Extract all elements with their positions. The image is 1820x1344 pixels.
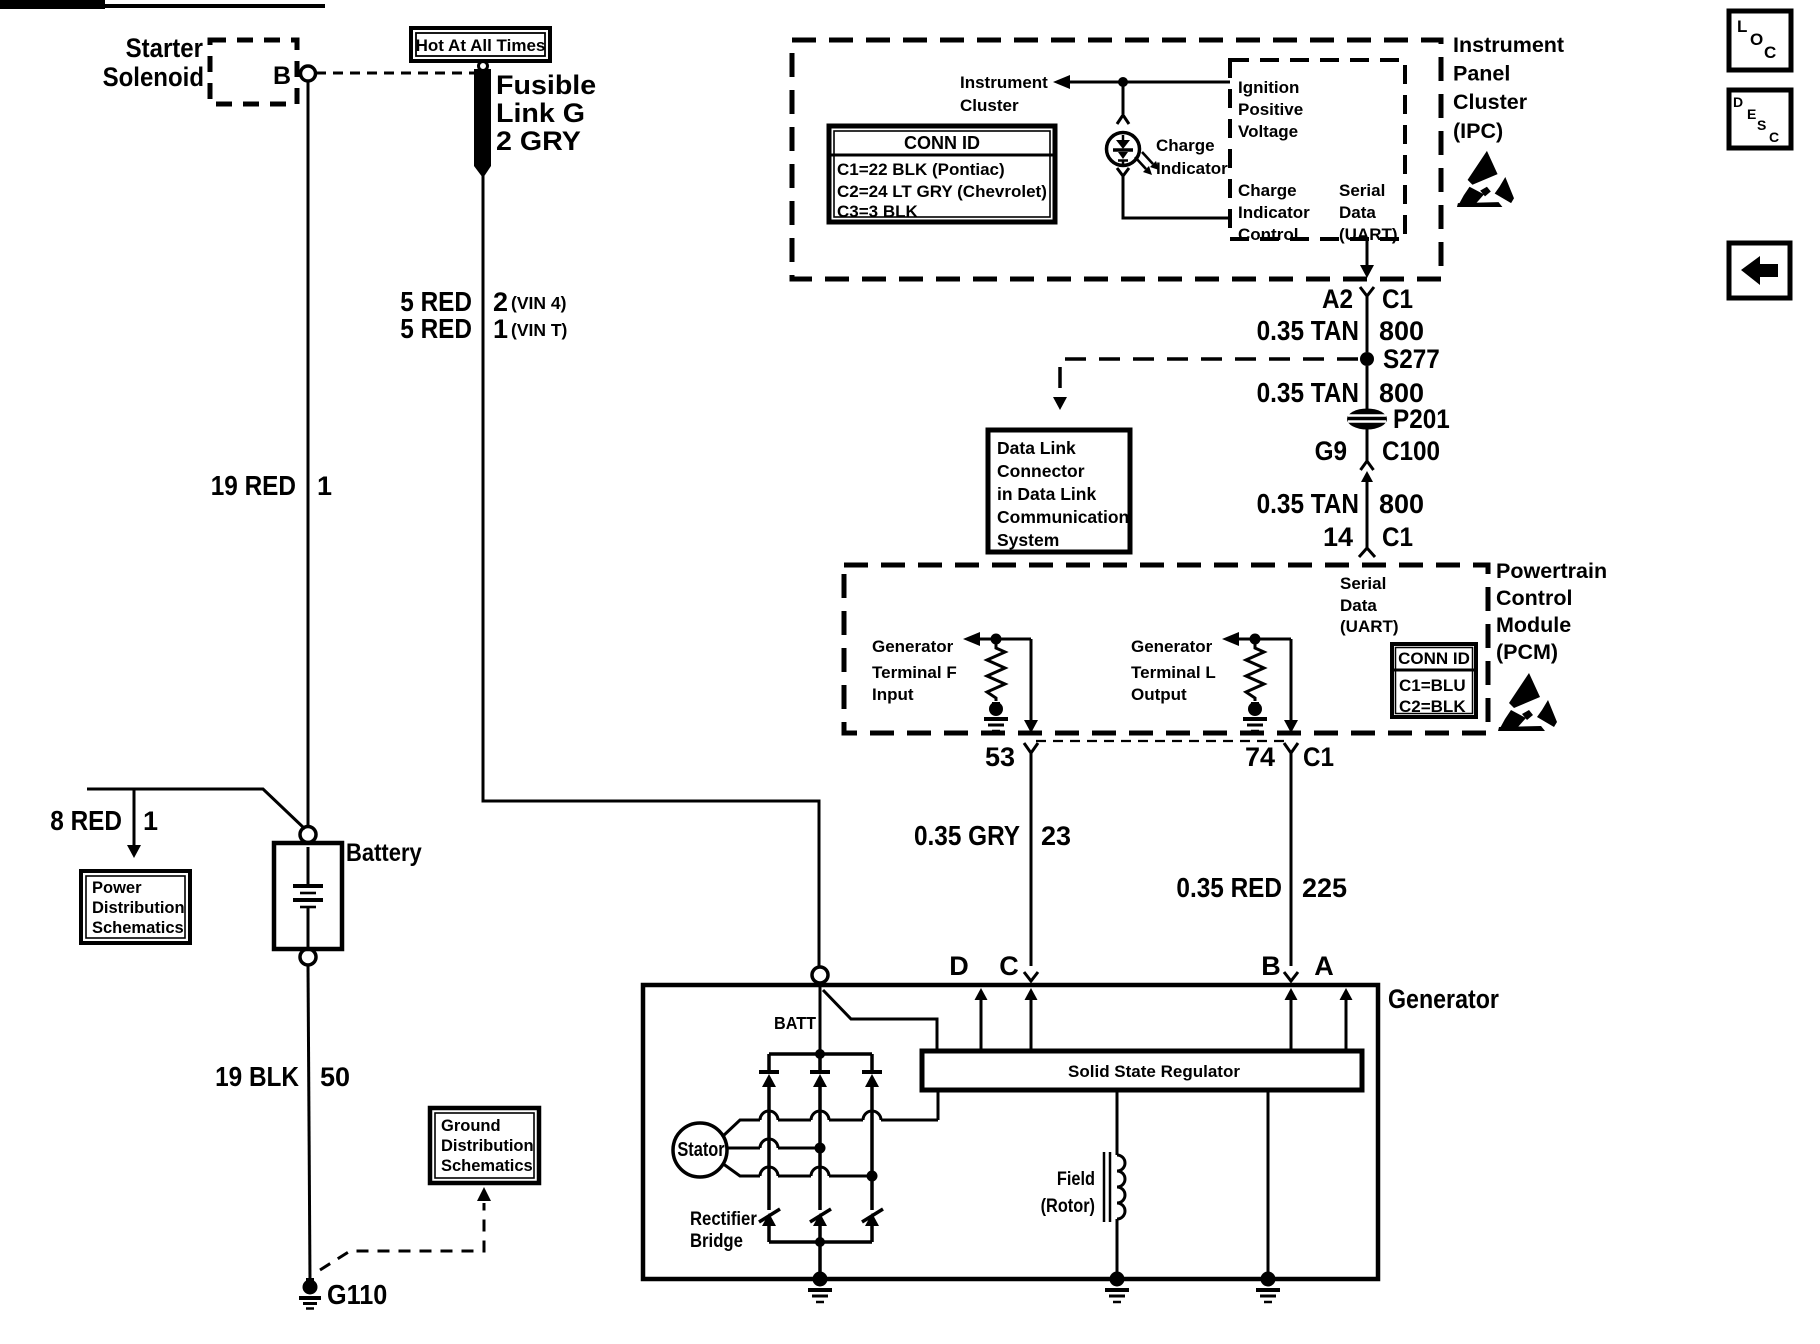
- ground L: [1243, 702, 1267, 731]
- field rotor coil: [1104, 1152, 1125, 1222]
- resistor F pull-down: [987, 644, 1005, 701]
- rectifier bridge bottom bus: [769, 1240, 872, 1244]
- BATT label: [774, 1013, 816, 1033]
- svg-text:(UART): (UART): [1340, 617, 1399, 636]
- svg-text:Powertrain: Powertrain: [1496, 559, 1607, 583]
- wire label 0.35 TAN 800 upper: [1257, 314, 1424, 346]
- svg-text:Terminal F: Terminal F: [872, 663, 957, 682]
- svg-text:Cluster: Cluster: [1453, 90, 1528, 114]
- diode top column 1: [759, 1072, 779, 1087]
- battery label: [346, 839, 422, 867]
- terminal B label: [273, 62, 291, 90]
- ground field: [1105, 1272, 1129, 1303]
- svg-text:50: 50: [320, 1062, 350, 1092]
- svg-text:Output: Output: [1131, 685, 1187, 704]
- wire junction to charge indicator: [1122, 82, 1125, 114]
- svg-text:1: 1: [143, 806, 158, 836]
- arrow generator terminal F: [963, 632, 1031, 646]
- svg-text:(IPC): (IPC): [1453, 119, 1503, 143]
- svg-text:Positive: Positive: [1238, 100, 1303, 119]
- stator lead bottom: [722, 1163, 878, 1182]
- svg-text:Input: Input: [872, 685, 914, 704]
- splice S277: [1360, 345, 1440, 374]
- wire regulator to field: [1116, 1090, 1119, 1155]
- instrument cluster label: [960, 73, 1048, 115]
- svg-text:2: 2: [493, 287, 508, 317]
- fusible link label: [496, 70, 596, 156]
- svg-text:Power: Power: [92, 879, 142, 897]
- connector into charge indicator: [1117, 115, 1129, 124]
- svg-text:G110: G110: [327, 1279, 387, 1311]
- svg-text:Cluster: Cluster: [960, 96, 1019, 115]
- stator: [673, 1123, 727, 1177]
- wire bridge to ground: [818, 1242, 822, 1279]
- wire 74 to generator B: [1290, 753, 1293, 966]
- diode top column 3: [862, 1072, 882, 1087]
- wire label 5 RED 1 (VIN T): [400, 312, 567, 344]
- power distribution schematics box: [81, 871, 190, 943]
- rectifier bridge label: [690, 1208, 757, 1251]
- charge indicator emission arrows: [1135, 152, 1159, 175]
- arrow D into generator: [975, 988, 988, 1051]
- svg-text:C1=22 BLK (Pontiac): C1=22 BLK (Pontiac): [837, 160, 1005, 179]
- arrow B into generator: [1285, 988, 1298, 1051]
- generator terminal F label: [872, 637, 957, 704]
- inner box labels charge indicator control: [1238, 181, 1310, 244]
- stator lead middle: [727, 1139, 826, 1154]
- generator label: [1388, 984, 1499, 1014]
- svg-text:Fusible: Fusible: [496, 70, 596, 100]
- svg-text:Communication: Communication: [997, 507, 1129, 527]
- wire label 0.35 TAN 800 middle: [1257, 376, 1424, 408]
- svg-text:Bridge: Bridge: [690, 1230, 743, 1251]
- svg-text:Ignition: Ignition: [1238, 78, 1299, 97]
- wire A2 to S277: [1366, 296, 1369, 352]
- svg-text:Control: Control: [1496, 586, 1572, 610]
- svg-text:C: C: [999, 951, 1019, 981]
- back arrow button: [1729, 243, 1790, 298]
- wire BATT down through bridge: [819, 983, 822, 1054]
- connector below charge indicator: [1117, 168, 1129, 176]
- battery positive terminal: [300, 827, 316, 843]
- arrow C into generator: [1025, 988, 1038, 1051]
- svg-text:Generator: Generator: [872, 637, 954, 656]
- resistor L pull-down: [1246, 644, 1264, 701]
- svg-text:Generator: Generator: [1131, 637, 1213, 656]
- wire regulator right to ground: [1267, 1090, 1270, 1279]
- junction instrument cluster feed: [1118, 77, 1128, 87]
- PCM ESD symbol: [1498, 673, 1557, 731]
- svg-text:0.35 TAN: 0.35 TAN: [1257, 487, 1359, 519]
- svg-text:Data: Data: [1340, 596, 1377, 615]
- label G110: [327, 1279, 387, 1311]
- terminal BATT: [812, 967, 828, 983]
- ground rectifier: [808, 1272, 832, 1303]
- IPC ESD symbol: [1457, 151, 1514, 207]
- svg-text:(Rotor): (Rotor): [1041, 1195, 1095, 1216]
- svg-text:B: B: [273, 62, 291, 90]
- connector 14 C1 into PCM: [1359, 548, 1375, 557]
- svg-text:74: 74: [1245, 742, 1275, 772]
- wire C100 to PCM: [1366, 481, 1369, 548]
- inner box labels ignition positive voltage: [1238, 78, 1303, 141]
- svg-text:Link G: Link G: [496, 98, 585, 128]
- wire label 8 RED 1: [50, 804, 158, 836]
- bridge column 1: [767, 1054, 771, 1242]
- svg-text:Module: Module: [1496, 613, 1571, 637]
- svg-text:225: 225: [1302, 873, 1347, 903]
- arrow to instrument cluster: [1053, 75, 1230, 89]
- arrow A into generator: [1340, 988, 1353, 1051]
- svg-text:A: A: [1314, 951, 1334, 981]
- charge indicator label: [1156, 136, 1228, 178]
- svg-text:0.35 RED: 0.35 RED: [1176, 871, 1282, 903]
- svg-text:(VIN 4): (VIN 4): [511, 293, 566, 313]
- wire branch to power distribution: [87, 789, 305, 829]
- PCM label: [1496, 559, 1607, 664]
- PCM serial data label: [1340, 574, 1399, 636]
- svg-text:800: 800: [1379, 316, 1424, 346]
- battery: [274, 843, 342, 949]
- ignition voltage dashed box: [1230, 60, 1405, 239]
- svg-text:BATT: BATT: [774, 1013, 816, 1033]
- junction bridge bottom: [815, 1237, 825, 1247]
- scan artifact bar top-left: [0, 0, 325, 9]
- Hot At All Times box: [411, 28, 550, 61]
- svg-text:14: 14: [1323, 522, 1353, 552]
- svg-text:in Data Link: in Data Link: [997, 484, 1096, 504]
- starter solenoid dashed box: [210, 40, 297, 104]
- wire field to ground: [1116, 1219, 1119, 1279]
- svg-text:53: 53: [985, 742, 1015, 772]
- svg-text:Generator: Generator: [1388, 984, 1499, 1014]
- svg-text:2 GRY: 2 GRY: [496, 126, 581, 156]
- label 14 C1: [1323, 522, 1413, 552]
- arrow into ground distribution box: [477, 1187, 491, 1201]
- svg-text:A2: A2: [1322, 285, 1353, 314]
- svg-text:Schematics: Schematics: [441, 1157, 533, 1175]
- svg-text:Distribution: Distribution: [92, 899, 185, 917]
- IPC CONN ID table: [829, 126, 1055, 222]
- instrument panel cluster dashed box: [792, 40, 1441, 279]
- wire 53 to generator C: [1030, 753, 1033, 966]
- wire solenoid B to battery: [307, 81, 310, 827]
- wire fusible link to generator BATT: [483, 176, 819, 967]
- svg-text:C1: C1: [1382, 523, 1413, 552]
- svg-text:1: 1: [493, 314, 508, 344]
- dashed wire G110 to ground distribution: [320, 1203, 484, 1270]
- svg-text:D: D: [1733, 94, 1743, 110]
- svg-text:Distribution: Distribution: [441, 1137, 534, 1155]
- svg-text:C1: C1: [1303, 743, 1334, 772]
- svg-text:Solid State Regulator: Solid State Regulator: [1068, 1062, 1240, 1081]
- field rotor label: [1041, 1168, 1095, 1216]
- svg-text:(PCM): (PCM): [1496, 640, 1558, 664]
- wire label 0.35 GRY 23: [914, 819, 1071, 851]
- ground regulator: [1256, 1272, 1280, 1303]
- battery negative terminal: [300, 949, 316, 965]
- svg-text:C1: C1: [1382, 285, 1413, 314]
- diode top column 2: [810, 1072, 830, 1087]
- svg-text:Indicator: Indicator: [1238, 203, 1310, 222]
- ground distribution schematics box: [430, 1108, 539, 1183]
- svg-text:Data Link: Data Link: [997, 438, 1076, 458]
- svg-text:E: E: [1747, 106, 1756, 122]
- svg-text:Battery: Battery: [346, 839, 422, 867]
- svg-text:Instrument: Instrument: [960, 73, 1048, 92]
- svg-text:Serial: Serial: [1340, 574, 1386, 593]
- label D: [949, 951, 969, 981]
- bridge column 2: [818, 1054, 822, 1242]
- svg-text:D: D: [949, 951, 969, 981]
- svg-text:0.35 TAN: 0.35 TAN: [1257, 314, 1359, 346]
- LOC button: [1729, 11, 1791, 70]
- svg-text:19 BLK: 19 BLK: [215, 1060, 299, 1092]
- svg-text:Solenoid: Solenoid: [103, 63, 204, 93]
- pin 53 connector: [985, 742, 1038, 772]
- wire label 19 RED 1: [211, 469, 332, 501]
- svg-text:Hot At All Times: Hot At All Times: [416, 36, 546, 55]
- dashed wire S277 to data link connector: [1053, 359, 1358, 410]
- label C: [999, 951, 1019, 981]
- data link connector box: [988, 430, 1130, 552]
- IPC label: [1453, 33, 1564, 143]
- connector line C1 below PCM: [1036, 740, 1286, 742]
- label A: [1314, 951, 1334, 981]
- ground F: [984, 702, 1008, 731]
- wire charge indicator to control: [1123, 176, 1230, 218]
- svg-text:S: S: [1757, 117, 1766, 133]
- svg-text:8 RED: 8 RED: [50, 804, 122, 836]
- svg-text:0.35 TAN: 0.35 TAN: [1257, 376, 1359, 408]
- rectifier bridge top bus: [769, 1052, 872, 1056]
- diode bottom column 3 with slash: [862, 1209, 883, 1226]
- wire label 0.35 TAN 800 lower: [1257, 487, 1424, 519]
- svg-text:C2=24 LT GRY (Chevrolet): C2=24 LT GRY (Chevrolet): [837, 182, 1047, 201]
- wire BATT feedthrough to stator: [937, 1090, 940, 1120]
- diode bottom column 2 with slash: [810, 1209, 831, 1226]
- svg-text:Ground: Ground: [441, 1117, 501, 1135]
- charge indicator lamp: [1107, 133, 1140, 166]
- svg-text:23: 23: [1041, 821, 1071, 851]
- svg-text:System: System: [997, 530, 1059, 550]
- svg-text:C1=BLU: C1=BLU: [1399, 676, 1466, 695]
- svg-text:Voltage: Voltage: [1238, 122, 1298, 141]
- svg-text:L: L: [1737, 17, 1747, 36]
- solid state regulator: [922, 1051, 1362, 1090]
- junction L: [1250, 634, 1261, 645]
- ground G110: [299, 1278, 321, 1309]
- svg-text:CONN ID: CONN ID: [1398, 649, 1470, 668]
- svg-text:Data: Data: [1339, 203, 1376, 222]
- wire L to pin 74: [1284, 639, 1298, 733]
- svg-text:C100: C100: [1382, 437, 1440, 466]
- svg-text:Stator: Stator: [677, 1137, 724, 1160]
- svg-text:800: 800: [1379, 378, 1424, 408]
- wire label 5 RED 2 (VIN 4): [400, 285, 566, 317]
- svg-text:B: B: [1261, 951, 1281, 981]
- connector B at generator: [1284, 972, 1298, 981]
- PCM CONN ID table: [1392, 644, 1476, 717]
- svg-text:19 RED: 19 RED: [211, 469, 296, 501]
- svg-text:C: C: [1769, 129, 1779, 145]
- junction F: [991, 634, 1002, 645]
- svg-text:Instrument: Instrument: [1453, 33, 1564, 57]
- svg-text:Control: Control: [1238, 225, 1298, 244]
- svg-text:Terminal L: Terminal L: [1131, 663, 1216, 682]
- terminal B: [301, 66, 316, 81]
- svg-text:C3=3 BLK: C3=3 BLK: [837, 202, 918, 221]
- svg-text:0.35 GRY: 0.35 GRY: [914, 819, 1020, 851]
- label B: [1261, 951, 1281, 981]
- svg-text:Starter: Starter: [126, 34, 203, 64]
- connector A2 C1: [1322, 285, 1413, 314]
- wire S277 to P201: [1366, 366, 1369, 410]
- bridge column 3: [870, 1054, 874, 1242]
- junction bridge top: [815, 1049, 825, 1059]
- DESC button: [1729, 90, 1791, 148]
- svg-text:C: C: [1764, 43, 1776, 62]
- fusible link G: [474, 62, 491, 179]
- arrow generator terminal L: [1222, 632, 1291, 646]
- wire battery to G110: [308, 965, 310, 1281]
- connector C at generator: [1024, 972, 1038, 981]
- svg-text:O: O: [1750, 30, 1763, 49]
- svg-text:1: 1: [317, 471, 332, 501]
- svg-text:Panel: Panel: [1453, 62, 1510, 86]
- inner box labels serial data uart: [1339, 181, 1398, 244]
- powertrain control module dashed box: [844, 565, 1488, 733]
- generator terminal L label: [1131, 637, 1216, 704]
- connector G9 C100: [1315, 437, 1440, 482]
- svg-text:Serial: Serial: [1339, 181, 1385, 200]
- pin 74 connector: [1245, 742, 1334, 772]
- svg-text:Charge: Charge: [1238, 181, 1297, 200]
- svg-text:Charge: Charge: [1156, 136, 1215, 155]
- svg-text:Field: Field: [1057, 1168, 1095, 1189]
- svg-text:G9: G9: [1315, 437, 1347, 466]
- svg-text:Indicator: Indicator: [1156, 159, 1228, 178]
- wire label 0.35 RED 225: [1176, 871, 1347, 903]
- grommet P201: [1347, 405, 1450, 434]
- svg-text:Connector: Connector: [997, 461, 1085, 481]
- wire F to pin 53: [1024, 639, 1038, 733]
- svg-text:P201: P201: [1393, 405, 1450, 434]
- wire P201 to C100: [1366, 429, 1369, 461]
- svg-text:Schematics: Schematics: [92, 919, 184, 937]
- stator lead top: [722, 1111, 938, 1137]
- svg-text:800: 800: [1379, 489, 1424, 519]
- svg-text:5 RED: 5 RED: [400, 312, 472, 344]
- diode bottom column 1 with slash: [759, 1209, 780, 1226]
- svg-text:S277: S277: [1383, 345, 1440, 374]
- dashed wire B to fusible link: [316, 72, 474, 75]
- svg-text:CONN ID: CONN ID: [904, 133, 980, 153]
- svg-text:(VIN T): (VIN T): [511, 320, 567, 340]
- starter solenoid label: [103, 34, 204, 93]
- generator box: [643, 985, 1378, 1279]
- svg-text:Rectifier: Rectifier: [690, 1208, 757, 1229]
- arrow to power distribution schematics: [127, 789, 141, 858]
- wire label 19 BLK 50: [215, 1060, 350, 1092]
- wire BATT lead: [823, 990, 937, 1051]
- serial data exit arrow: [1360, 241, 1374, 278]
- svg-text:C2=BLK: C2=BLK: [1399, 697, 1466, 716]
